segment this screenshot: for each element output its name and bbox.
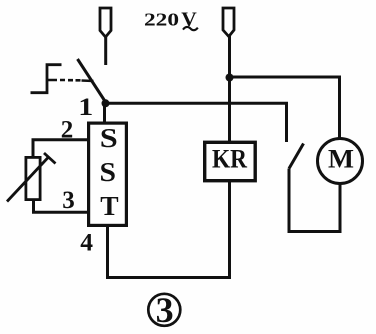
svg-text:1: 1 (78, 94, 93, 121)
svg-text:M: M (328, 143, 354, 173)
step-signal actuator symbol (31, 65, 62, 93)
wire from plug P1 down to switch gap (104, 36, 107, 65)
figure number circle 3 (148, 294, 180, 326)
pin 1 wire (node 1 down into SST) (103, 103, 106, 122)
switch S2 blade (KR contact, open) (289, 144, 304, 169)
label 220V (AC supply) (144, 9, 197, 30)
junction node (supply / KR / motor branch) (226, 74, 234, 82)
thermistor T-bar tip (44, 153, 56, 164)
svg-text:3: 3 (62, 187, 75, 214)
svg-text:S: S (100, 122, 118, 153)
pin 2 wire to thermistor top (33, 140, 88, 158)
node 1 junction dot (102, 99, 110, 107)
wire KR bottom down (228, 182, 231, 278)
plug P2 (right supply pin) (223, 8, 234, 37)
thermistor RT body (26, 157, 40, 199)
wire from plug P2 down to junction (228, 36, 231, 78)
SST box (thermal switch module) (89, 123, 127, 225)
svg-text:S: S (100, 156, 117, 187)
svg-text:4: 4 (80, 228, 93, 257)
wire junction down to KR top (crosses node-1 rail) (228, 79, 231, 141)
svg-text:3: 3 (156, 290, 174, 330)
KR relay box (205, 142, 256, 180)
wire fixed contact of S2 up and left to node 1 rail (106, 103, 287, 142)
svg-text:T: T (100, 190, 118, 221)
motor M (318, 139, 363, 184)
dashed mechanical linkage to blade (48, 80, 94, 81)
switch S1 blade (main contact) (78, 59, 106, 102)
plug P1 (left supply pin) (100, 8, 111, 37)
pin 3 wire from thermistor bottom (34, 200, 89, 212)
tilde under V (AC mark) (183, 27, 198, 30)
wire motor bottom to lower right corner (289, 169, 340, 232)
wire bottom return to SST pin 4 (108, 226, 232, 278)
wire junction to motor branch (top right horizontal) (230, 77, 340, 139)
svg-text:220: 220 (144, 9, 179, 29)
thermistor diagonal stroke (7, 157, 49, 202)
svg-text:KR: KR (212, 145, 247, 174)
